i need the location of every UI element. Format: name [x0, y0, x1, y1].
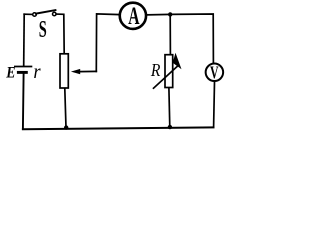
svg-text:r: r	[33, 61, 41, 83]
rheostat (potentiometer) body rectangle	[60, 54, 68, 88]
wire voltmeter bottom to bottom bus	[213, 82, 216, 127]
wire slider vertical up and over to ammeter	[96, 14, 119, 72]
svg-text:V: V	[210, 63, 219, 83]
resistor R body rectangle	[165, 55, 173, 88]
wire rheostat bottom to junction B	[65, 89, 66, 128]
wire left branch upper vertical (corner down to battery + plate)	[23, 14, 26, 65]
wire top-left horizontal from corner to switch terminal	[24, 13, 33, 15]
wire resistor R bottom to junction D	[168, 88, 171, 127]
battery E,r negative plate (short thick)	[17, 71, 28, 74]
wire junction C down to resistor R top	[169, 14, 171, 55]
voltmeter V circle	[206, 64, 224, 82]
resistor R arrowhead	[173, 53, 182, 69]
node D junction dot (R bottom / bus)	[168, 125, 172, 129]
switch S left terminal circle	[33, 13, 37, 17]
resistor R variable arrow diagonal	[154, 66, 178, 88]
wire left branch lower vertical (battery - down to bottom-left corner)	[22, 74, 25, 129]
slider arrowhead pointing left into rheostat	[71, 69, 80, 74]
wire bottom bus (bottom-left corner to bottom-right corner)	[23, 127, 214, 129]
battery E,r positive plate (long thin)	[14, 66, 32, 68]
node C junction dot (ammeter / R / V)	[168, 12, 172, 16]
ammeter A circle	[120, 3, 146, 29]
switch S right terminal circle	[53, 12, 57, 16]
switch S blade	[36, 10, 55, 14]
svg-text:S: S	[39, 16, 47, 43]
wire ammeter to junction C	[147, 13, 170, 16]
wire slider horizontal segment	[80, 70, 97, 72]
node B junction dot (rheostat bottom / bus)	[64, 125, 68, 129]
wire switch to rheostat top (right then down)	[56, 14, 64, 54]
svg-text:R: R	[150, 60, 161, 80]
wire junction C right and down to voltmeter top	[170, 14, 213, 63]
svg-text:E: E	[5, 65, 15, 82]
svg-text:A: A	[128, 4, 139, 30]
